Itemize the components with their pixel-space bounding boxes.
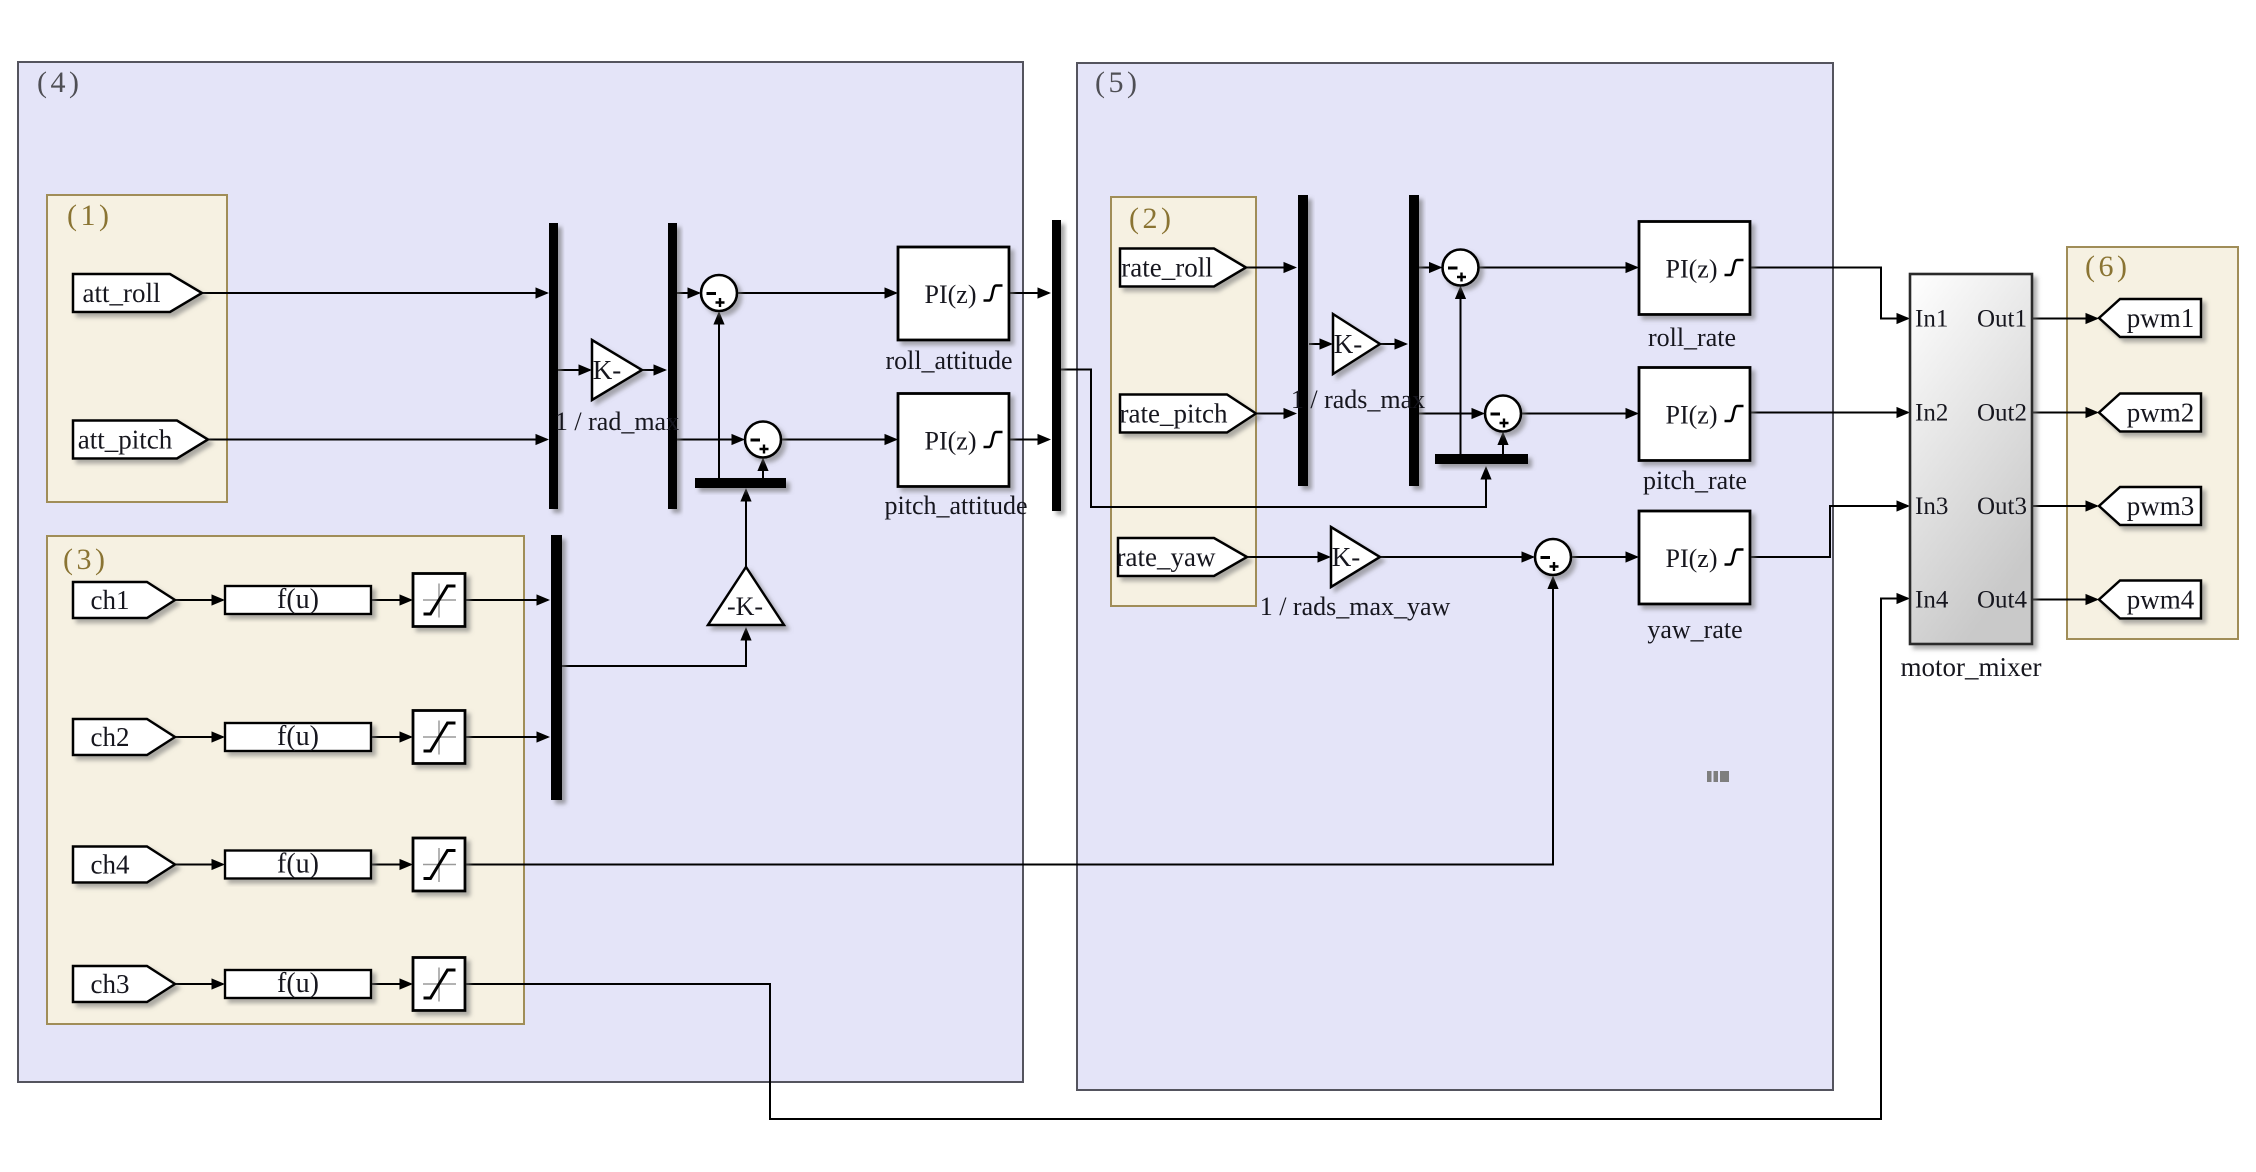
svg-text:PI(z): PI(z)	[1666, 401, 1718, 430]
svg-text:f(u): f(u)	[277, 584, 319, 615]
sum roll attitude	[701, 275, 737, 311]
svg-text:f(u): f(u)	[277, 721, 319, 752]
subsystem motor_mixer	[1910, 274, 2032, 644]
svg-text:pwm3: pwm3	[2127, 491, 2195, 521]
wire demux to pitch attitude sum	[677, 439, 743, 441]
svg-text:K-: K-	[1334, 329, 1363, 359]
svg-text:In2: In2	[1915, 400, 1948, 427]
demux bar rate feedback (horizontal)	[1435, 454, 1528, 464]
fcn block f(u) ch2	[225, 723, 371, 751]
wire PI yaw_rate to motor_mixer In3	[1750, 506, 1908, 557]
svg-text:pitch_attitude: pitch_attitude	[885, 491, 1028, 520]
wire roll rate sum to PI roll_rate	[1479, 267, 1638, 269]
region (3) rc channel inputs	[47, 536, 524, 1024]
wire pitch attitude sum to PI pitch_attitude	[781, 439, 896, 441]
svg-text:PI(z): PI(z)	[925, 280, 977, 309]
wire gain to rate demux	[1380, 343, 1406, 345]
svg-text:f(u): f(u)	[277, 849, 319, 880]
sum roll rate	[1443, 250, 1479, 286]
PI block roll_rate	[1639, 222, 1750, 315]
svg-text:1 / rad_max: 1 / rad_max	[555, 407, 679, 436]
svg-text:rate_yaw: rate_yaw	[1117, 542, 1216, 572]
wire PI roll_rate to motor_mixer In1	[1749, 268, 1908, 319]
demux bar rate	[1409, 195, 1419, 486]
svg-text:ch3: ch3	[91, 969, 130, 999]
svg-text:rate_pitch: rate_pitch	[1120, 399, 1228, 429]
svg-text:roll_rate: roll_rate	[1648, 323, 1736, 352]
svg-text:ch4: ch4	[91, 850, 130, 880]
wire roll attitude sum to PI roll_attitude	[737, 292, 896, 294]
wire att_roll to mux	[202, 292, 547, 294]
wire PI pitch_attitude to output mux	[1009, 439, 1049, 441]
wire ch mux to gain -K-	[562, 629, 746, 666]
svg-text:pitch_rate: pitch_rate	[1643, 466, 1747, 495]
inport rate_roll	[1120, 249, 1246, 287]
wire gain -K- to att demux-bar	[745, 490, 747, 567]
gain -K- (up)	[708, 567, 784, 625]
svg-text:K-: K-	[593, 355, 622, 385]
region (4) attitude-loop area	[18, 62, 1023, 1082]
inport rate_pitch	[1120, 395, 1256, 433]
PI block yaw_rate	[1639, 511, 1750, 604]
svg-text:att_pitch: att_pitch	[78, 425, 173, 455]
inport ch1	[73, 582, 175, 618]
wire fcn to saturation at y=984	[371, 983, 411, 985]
PI block roll_attitude	[898, 247, 1009, 340]
outport pwm3	[2099, 487, 2201, 525]
wire rate_pitch to rate mux	[1256, 413, 1295, 415]
mux bar attitude outputs	[1052, 220, 1061, 511]
svg-text:In1: In1	[1915, 306, 1948, 333]
svg-text:pwm2: pwm2	[2127, 398, 2195, 428]
svg-text:(1): (1)	[67, 199, 112, 232]
svg-text:(4): (4)	[37, 66, 82, 99]
outport pwm2	[2099, 394, 2201, 432]
wire motor_mixer Out3 to pwm3	[2032, 505, 2097, 507]
wire output mux to rate feedback bar	[1061, 370, 1486, 508]
sum pitch attitude	[745, 422, 781, 458]
wire rate feedback bar to pitch rate sum plus input	[1502, 434, 1504, 455]
wire ch3 saturation to motor_mixer In4	[465, 599, 1908, 1120]
wire rate demux to pitch rate sum	[1419, 413, 1483, 415]
saturation block ch3	[413, 958, 465, 1011]
svg-text:-K-: -K-	[727, 592, 763, 621]
wire ch1 saturation to ch mux	[465, 599, 548, 601]
wire gain yaw to yaw sum	[1380, 556, 1533, 558]
outport pwm4	[2099, 581, 2201, 619]
wire PI roll_attitude to output mux	[1009, 292, 1049, 294]
wire rate mux to gain 1/rads_max	[1309, 343, 1331, 345]
wire ch port to fcn at y=600	[175, 599, 223, 601]
wire pitch rate sum to PI pitch_rate	[1521, 413, 1637, 415]
gain 1/rad_max	[592, 340, 642, 400]
svg-text:roll_attitude: roll_attitude	[885, 346, 1012, 375]
wire motor_mixer Out4 to pwm4	[2032, 599, 2097, 601]
mux bar attitude inputs	[549, 223, 558, 509]
inport att_pitch	[73, 421, 208, 459]
svg-text:ch1: ch1	[91, 585, 130, 615]
wire PI pitch_rate to motor_mixer In2	[1749, 412, 1908, 414]
wire ch port to fcn at y=737	[175, 736, 223, 738]
mux bar rc channels	[551, 535, 562, 800]
wire yaw sum to PI yaw_rate	[1571, 556, 1637, 558]
svg-text:PI(z): PI(z)	[1666, 255, 1718, 284]
wire rate demux to roll rate sum	[1419, 267, 1441, 269]
region (6) pwm outputs	[2067, 247, 2238, 639]
svg-text:1 / rads_max_yaw: 1 / rads_max_yaw	[1260, 592, 1451, 621]
wire ch2 saturation to ch mux	[465, 736, 548, 738]
wire fcn to saturation at y=600	[371, 599, 411, 601]
gain 1/rads_max_yaw	[1331, 527, 1380, 587]
wire ch4 saturation to yaw sum plus input	[465, 578, 1553, 865]
svg-text:PI(z): PI(z)	[925, 427, 977, 456]
svg-text:(5): (5)	[1095, 66, 1140, 99]
mux bar rate inputs	[1298, 195, 1308, 486]
svg-text:In3: In3	[1915, 493, 1948, 520]
svg-text:pwm4: pwm4	[2127, 585, 2195, 615]
saturation block ch2	[413, 711, 465, 764]
wire att demux-bar to pitch attitude sum plus input	[762, 460, 764, 479]
svg-text:ch2: ch2	[91, 722, 130, 752]
wire fcn to saturation at y=864.5	[371, 864, 411, 866]
svg-text:Out4: Out4	[1977, 587, 2028, 614]
svg-text:Out1: Out1	[1977, 306, 2027, 333]
saturation block ch4	[413, 838, 465, 891]
gain 1/rads_max	[1333, 314, 1380, 374]
svg-text:(6): (6)	[2085, 250, 2130, 283]
inport att_roll	[73, 274, 202, 312]
demux bar attitude	[668, 223, 677, 509]
wire motor_mixer Out1 to pwm1	[2032, 318, 2097, 320]
wire fcn to saturation at y=737	[371, 736, 411, 738]
svg-text:Out3: Out3	[1977, 493, 2027, 520]
svg-text:rate_roll: rate_roll	[1121, 253, 1212, 283]
wire ch port to fcn at y=864.5	[175, 864, 223, 866]
sum yaw rate	[1535, 539, 1571, 575]
svg-text:pwm1: pwm1	[2127, 303, 2195, 333]
saturation block ch1	[413, 574, 465, 627]
outport pwm1	[2099, 299, 2201, 337]
svg-text:(2): (2)	[1129, 202, 1174, 235]
fcn block f(u) ch3	[225, 970, 371, 998]
svg-text:f(u): f(u)	[277, 968, 319, 999]
wire att_pitch to mux	[208, 439, 547, 441]
svg-text:K-: K-	[1332, 542, 1361, 572]
svg-text:1 / rads_max: 1 / rads_max	[1291, 385, 1425, 414]
PI block pitch_rate	[1639, 368, 1750, 461]
svg-text:PI(z): PI(z)	[1666, 544, 1718, 573]
wire demux to roll attitude sum	[677, 292, 699, 294]
region (2) rate inputs	[1111, 197, 1256, 606]
wire gain to demux	[642, 369, 665, 371]
svg-text:yaw_rate: yaw_rate	[1647, 615, 1742, 644]
wire motor_mixer Out2 to pwm2	[2032, 412, 2097, 414]
PI block pitch_attitude	[898, 394, 1009, 487]
sum pitch rate	[1485, 396, 1521, 432]
fcn block f(u) ch1	[225, 586, 371, 614]
wire rate feedback bar to roll rate sum plus input	[1460, 288, 1462, 455]
annotation marker	[1707, 771, 1729, 782]
wire att demux-bar to roll attitude sum plus input	[718, 313, 720, 478]
fcn block f(u) ch4	[225, 851, 371, 879]
inport ch4	[73, 847, 175, 883]
region (5) rate-loop area	[1077, 63, 1833, 1090]
inport ch2	[73, 719, 175, 755]
wire ch port to fcn at y=984	[175, 983, 223, 985]
svg-text:motor_mixer: motor_mixer	[1901, 652, 2042, 682]
wire rate_yaw to gain 1/rads_max_yaw	[1247, 556, 1329, 558]
svg-text:Out2: Out2	[1977, 400, 2027, 427]
region (1) attitude inputs	[47, 195, 227, 502]
svg-text:In4: In4	[1915, 587, 1949, 614]
inport ch3	[73, 966, 175, 1002]
svg-text:att_roll: att_roll	[83, 278, 161, 308]
demux bar attitude feedback (horizontal)	[695, 478, 786, 488]
wire rate_roll to rate mux	[1246, 267, 1295, 269]
wire mux to gain 1/rad_max	[558, 369, 590, 371]
inport rate_yaw	[1118, 538, 1247, 576]
svg-text:(3): (3)	[63, 543, 108, 576]
